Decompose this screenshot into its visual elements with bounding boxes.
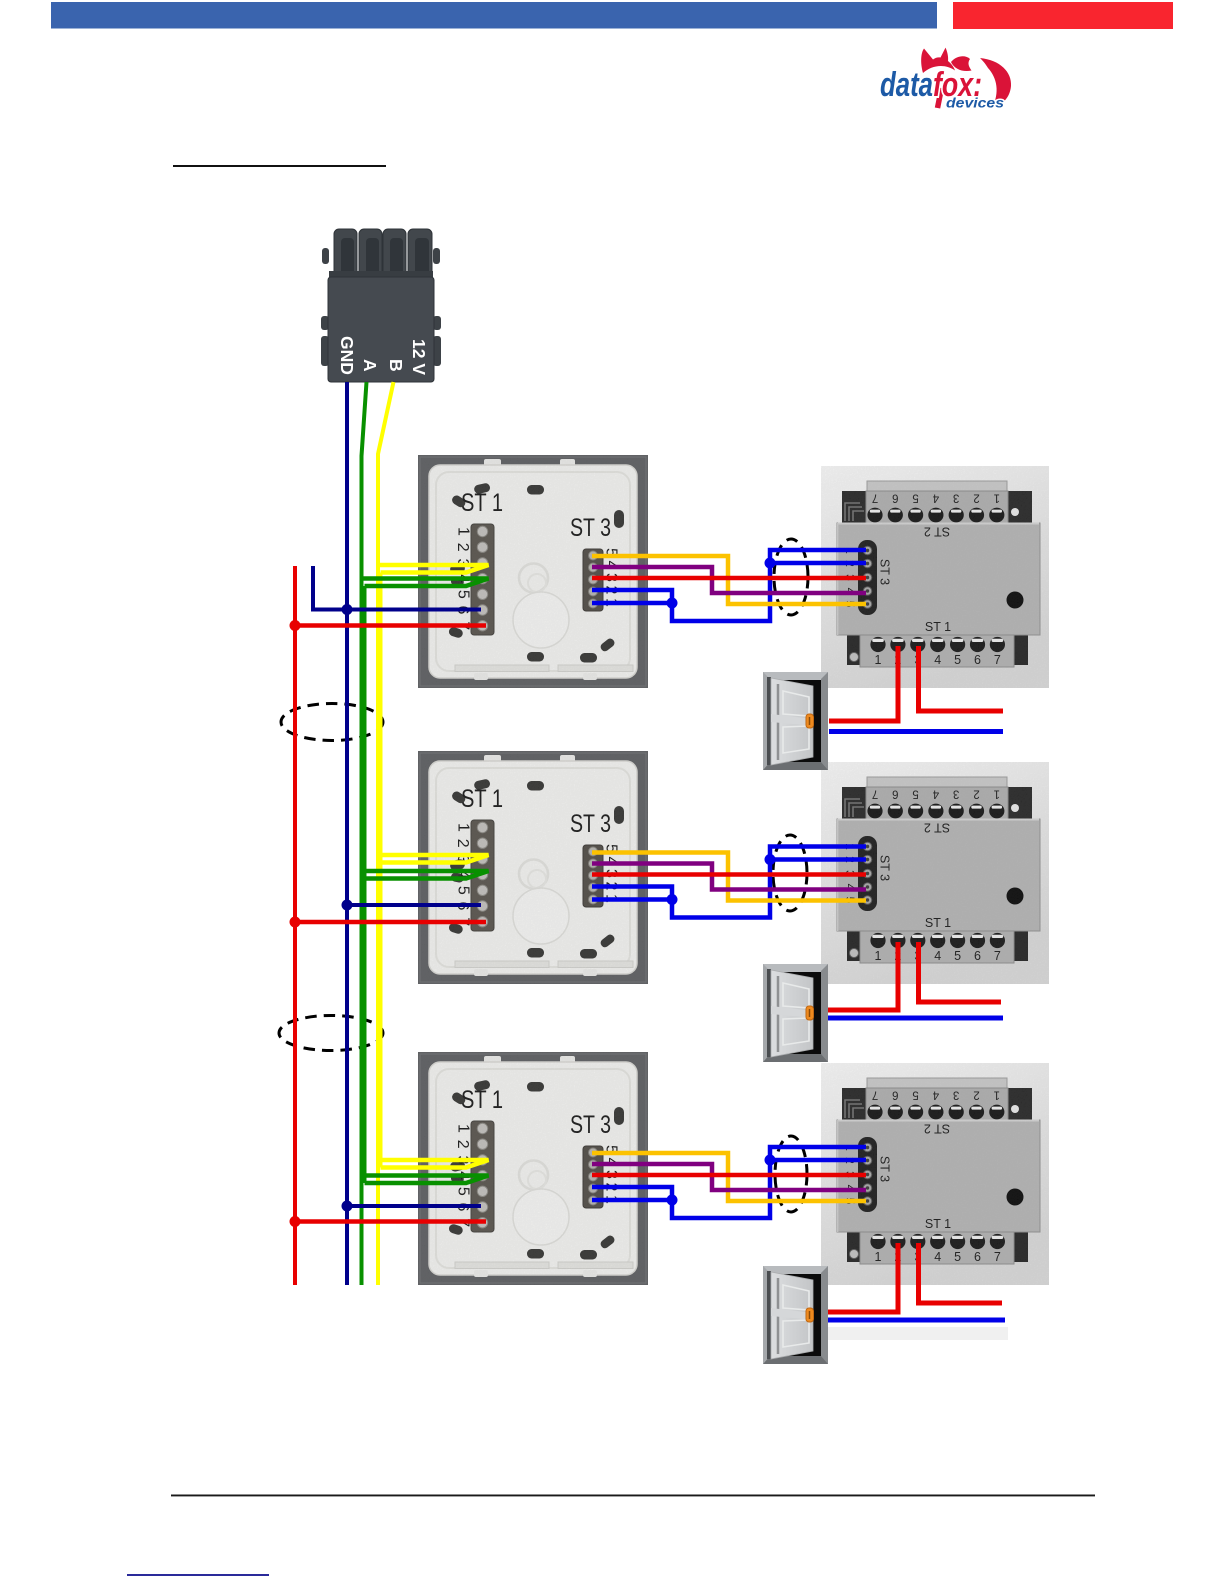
- svg-text:devices: devices: [946, 96, 1005, 111]
- svg-text:12 V: 12 V: [409, 339, 429, 375]
- svg-text:data: data: [880, 66, 933, 104]
- svg-text:A: A: [360, 359, 380, 372]
- svg-text:B: B: [386, 359, 406, 372]
- svg-text:GND: GND: [337, 336, 357, 375]
